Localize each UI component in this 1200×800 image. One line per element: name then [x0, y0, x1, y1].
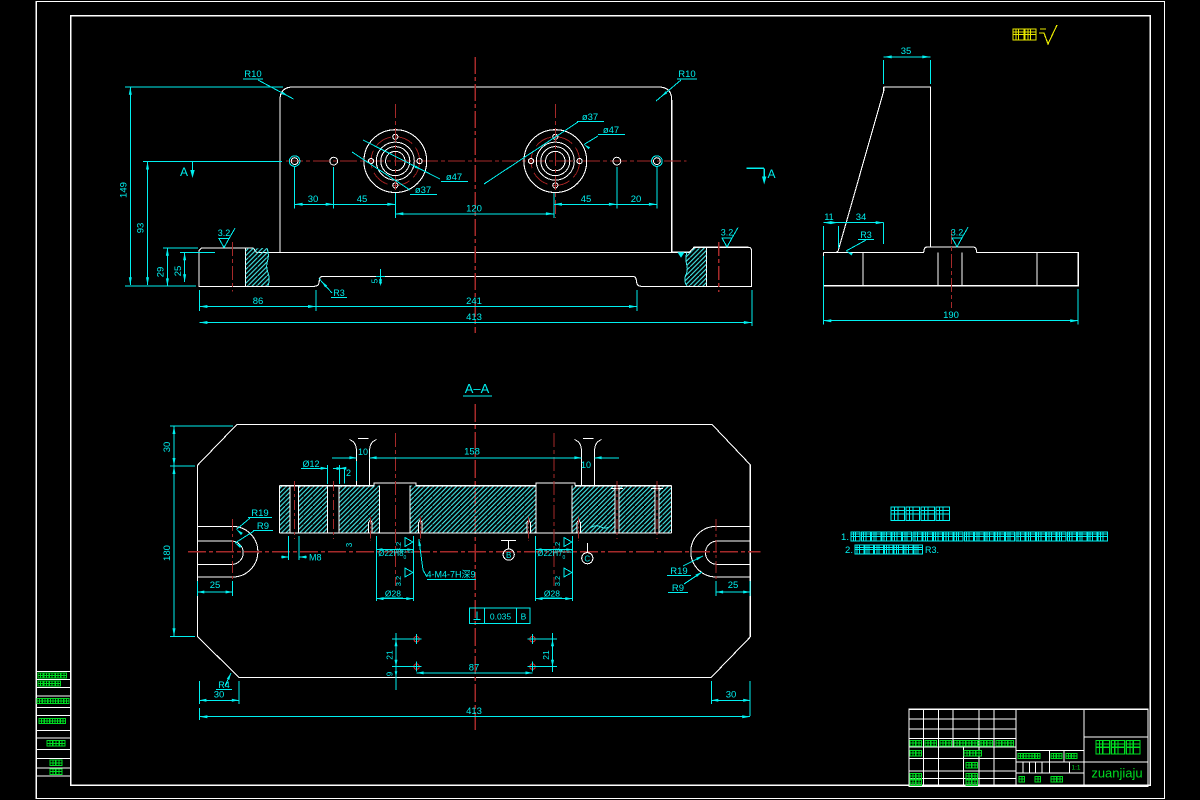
flange bolt holes: [553, 134, 558, 139]
surface finish 3.2 on left boss: [219, 239, 229, 248]
svg-text:10: 10: [358, 447, 368, 457]
dimension 180 (left vertical): [173, 466, 175, 636]
front view main body outline: [280, 87, 672, 252]
roughness 3.2 flag in bore: [564, 538, 572, 547]
technical requirements heading: [891, 507, 950, 521]
bore 1 raised lip: [374, 483, 416, 486]
svg-text:R10: R10: [244, 69, 261, 80]
title block staff rows (green): [910, 751, 922, 757]
groove depth dim 5: [380, 269, 382, 284]
svg-text:180: 180: [162, 545, 173, 561]
small hole right: [613, 157, 621, 165]
left margin signature table: [36, 671, 71, 673]
small hole far right: [654, 158, 661, 165]
svg-text:9: 9: [386, 671, 395, 676]
flange inner bore circle: [386, 151, 405, 170]
funnel lug left: [349, 440, 356, 486]
right slot outer lines: [716, 525, 750, 527]
svg-text:2.: 2.: [845, 545, 853, 556]
front view horizontal centerline: [286, 160, 687, 162]
front view right boss section hatch: [685, 248, 707, 286]
flange bolt holes: [393, 134, 398, 139]
svg-text:A: A: [767, 167, 775, 181]
left slot inner lines: [197, 540, 232, 542]
M4 countersink tops: [611, 488, 623, 490]
svg-text:120: 120: [466, 204, 482, 215]
title block main vertical divider: [1083, 709, 1085, 786]
side view gusset slant edge: [838, 91, 883, 250]
leader phi37 flange1: [352, 152, 410, 190]
svg-text:11: 11: [824, 212, 833, 222]
part name (green): [1096, 741, 1140, 755]
bore dim phi28: [536, 598, 573, 600]
section bar hatched segments: [280, 486, 291, 533]
svg-text:1:1: 1:1: [1071, 765, 1080, 772]
left margin table green labels: [38, 673, 66, 678]
dimension 30 (top left vertical): [173, 426, 175, 466]
funnel lug right: [574, 440, 581, 486]
dimension 158 (funnel spacing): [370, 457, 582, 459]
svg-text:25: 25: [210, 580, 221, 591]
small hole far left: [291, 158, 298, 165]
svg-text:93: 93: [136, 223, 147, 234]
front view left boss section hatch: [246, 248, 270, 286]
svg-text:86: 86: [253, 296, 264, 307]
dimension 35 (column width): [883, 60, 885, 84]
svg-text:30: 30: [726, 690, 737, 701]
dimension 413 (front view total): [751, 290, 753, 326]
svg-text:A: A: [180, 165, 188, 179]
svg-text:R3: R3: [860, 230, 872, 240]
small surface tick on step: [678, 252, 685, 257]
surface finish 3.2 on side pad: [952, 238, 962, 247]
feature control frame perpendicularity: [470, 608, 531, 623]
section bar top edge: [280, 485, 374, 487]
section bar edge verticals: [279, 486, 281, 533]
svg-text:29: 29: [156, 267, 167, 278]
right slot centerline: [715, 519, 717, 587]
flange inner bore circle: [546, 151, 565, 170]
svg-text:A–A: A–A: [465, 381, 490, 396]
side view column outline: [884, 87, 931, 247]
svg-text:R10: R10: [678, 69, 695, 80]
svg-text:25: 25: [728, 580, 739, 591]
svg-text:1.: 1.: [841, 532, 849, 543]
stage mark cells: [1049, 751, 1051, 773]
svg-text:3.2: 3.2: [553, 576, 562, 586]
svg-text:35: 35: [901, 46, 912, 57]
leader phi47 flange1: [363, 140, 440, 179]
svg-text:34: 34: [856, 212, 867, 223]
bore dim ext lines at 394.9: [376, 536, 378, 601]
gusset foot fillet: [835, 250, 838, 252]
dimension 241 (groove length): [636, 290, 638, 311]
svg-text:3.2: 3.2: [721, 228, 734, 238]
side view base outline: [823, 247, 1078, 286]
left slot centerline: [232, 519, 234, 587]
break line in hatch: [590, 525, 612, 528]
dimension 10 (right funnel): [595, 457, 619, 459]
bore dim phi22 with tolerance: [536, 549, 573, 551]
extension lines below holes: [294, 167, 296, 209]
front view vertical centerline: [474, 57, 476, 333]
svg-text:Ø12: Ø12: [302, 459, 319, 469]
dimension 87 (hole spacing): [417, 672, 533, 674]
right slot inner lines: [716, 540, 750, 542]
surface finish 3.2 on right boss: [722, 238, 732, 247]
section bar bottom edge: [280, 532, 672, 534]
svg-text:3.2: 3.2: [218, 228, 231, 238]
svg-text:R4: R4: [218, 680, 230, 690]
bore dim ext lines at 553.9: [535, 536, 537, 601]
dimension phi12 (hole 2): [327, 465, 329, 484]
dimension 3 (funnel wall): [355, 461, 357, 481]
flange circle phi37: [536, 142, 574, 180]
dimension 413 (section total): [198, 708, 200, 720]
bore 2 raised lip: [536, 483, 575, 486]
side view base inner edges: [862, 252, 864, 285]
leader phi37 flange2: [484, 122, 578, 184]
svg-text:30: 30: [308, 194, 319, 205]
dimension 10 (left funnel): [332, 457, 356, 459]
stage mark labels (green): [1018, 754, 1040, 759]
svg-text:3: 3: [345, 542, 354, 547]
flange bore circle: [381, 147, 410, 176]
side view centerline: [950, 230, 952, 308]
svg-text:190: 190: [943, 310, 959, 321]
title block left grid horizontals: [909, 718, 1016, 720]
bottom blind holes M4 outlines: [369, 520, 373, 533]
svg-text:5: 5: [371, 278, 380, 283]
svg-text:413: 413: [466, 706, 482, 717]
flange bolt circle (red): [531, 137, 580, 186]
dimension 29 (boss height): [166, 248, 168, 287]
dimension 149 (left): [129, 87, 131, 285]
dimension 25 (base height): [184, 252, 186, 282]
section view octagonal outline: [197, 424, 750, 677]
flange outer circle phi47: [524, 130, 587, 193]
svg-text:30: 30: [162, 442, 173, 453]
roughness 3.2 flag in bore: [405, 538, 413, 547]
dimension M8 (hole 1): [288, 536, 290, 560]
svg-text:21: 21: [541, 650, 551, 660]
flange vertical centerline: [394, 104, 396, 218]
datum B circle: [503, 549, 514, 560]
svg-text:2: 2: [346, 468, 351, 478]
svg-text:20: 20: [631, 194, 642, 205]
title block revision header row (green): [910, 740, 922, 746]
small hole left: [330, 157, 338, 165]
right slot inner arc R9: [705, 541, 716, 564]
svg-text:Ø28: Ø28: [385, 589, 401, 599]
dimension 45 (left): [334, 203, 396, 205]
flange circle phi37: [376, 142, 414, 180]
svg-text:25: 25: [173, 266, 184, 277]
dimension 45 (right): [554, 203, 617, 205]
flange outer circle phi47: [364, 130, 427, 193]
svg-text:3.2: 3.2: [394, 576, 403, 586]
svg-text:C: C: [584, 555, 590, 564]
dimension 34: [883, 223, 885, 244]
section main vertical centerline: [474, 404, 476, 731]
svg-text:87: 87: [469, 663, 480, 674]
svg-text:4-M4-7H深9: 4-M4-7H深9: [426, 570, 475, 580]
flange bolt circle (red): [371, 137, 420, 186]
svg-text:3.2: 3.2: [394, 542, 403, 552]
section arrow A (right): [747, 167, 765, 169]
dimension 120 (flange spacing): [395, 213, 554, 215]
relief groove R3 label: [319, 279, 332, 294]
svg-text:30: 30: [214, 690, 225, 701]
svg-text:Ø28: Ø28: [544, 589, 560, 599]
left slot outer lines: [197, 525, 232, 527]
hole centerlines in bar: [293, 481, 295, 539]
title block outer box: [909, 709, 1148, 786]
svg-text:M8: M8: [309, 553, 322, 563]
dimension 21 (right): [537, 638, 557, 640]
svg-text:0.035: 0.035: [490, 612, 512, 622]
bore dim phi22 with tolerance: [377, 549, 414, 551]
dimension 30 (hole spacing left): [295, 203, 334, 205]
dimension 11: [822, 226, 824, 250]
dimension 9 (left): [395, 667, 397, 690]
svg-text:45: 45: [357, 194, 368, 205]
sheet count labels (green): [1019, 777, 1025, 783]
bore dim phi28: [377, 598, 414, 600]
svg-text:10: 10: [581, 460, 591, 470]
svg-text:3.2: 3.2: [553, 542, 562, 552]
dimension 93: [147, 162, 149, 286]
svg-text:45: 45: [581, 194, 592, 205]
svg-text:B: B: [506, 551, 511, 560]
dimension 20 (right): [617, 203, 657, 205]
left slot outer arc R19: [233, 526, 258, 577]
flange bore circle: [541, 147, 570, 176]
datum circle right: [582, 553, 593, 564]
dimension 25 (right slot depth): [715, 581, 717, 596]
svg-text:R3.: R3.: [925, 545, 939, 555]
dimension 30 (bottom left corner): [198, 681, 200, 704]
svg-text:B: B: [521, 612, 527, 622]
flange vertical centerline: [554, 104, 556, 218]
dimension 2 (lip): [337, 467, 344, 470]
dimension 30 (bottom right corner): [710, 681, 712, 704]
bottom mounting holes (red): [414, 637, 419, 642]
dimension 190 (side view width): [822, 256, 824, 325]
right slot outer arc R19: [691, 526, 716, 577]
svg-text:149: 149: [119, 182, 130, 198]
svg-text:0: 0: [404, 555, 407, 561]
title block middle area: [1016, 750, 1084, 752]
right boss centerline: [718, 242, 720, 292]
title block right cell dividers: [1084, 736, 1148, 738]
leader phi47 flange2: [584, 136, 598, 145]
dimension 21 (left): [392, 638, 412, 640]
svg-text:R3: R3: [333, 288, 345, 298]
section main horizontal centerline: [188, 551, 761, 553]
general roughness note (top right, yellow): [1013, 29, 1036, 40]
side view base top left segment: [823, 251, 836, 253]
svg-text:21: 21: [385, 650, 395, 660]
dimension 86 (bottom left): [198, 290, 200, 311]
dimension 25 (left slot depth): [196, 581, 198, 596]
svg-text:241: 241: [466, 296, 482, 307]
left slot inner arc R9: [233, 541, 244, 564]
title block left grid verticals: [923, 709, 925, 747]
svg-text:3.2: 3.2: [951, 227, 964, 237]
svg-text:158: 158: [464, 447, 480, 458]
svg-text:zuanjiaju: zuanjiaju: [1091, 766, 1142, 781]
front view base plate outline: [199, 248, 257, 253]
left boss centerline: [232, 242, 234, 292]
svg-text:413: 413: [466, 312, 482, 323]
svg-text:0: 0: [563, 555, 566, 561]
